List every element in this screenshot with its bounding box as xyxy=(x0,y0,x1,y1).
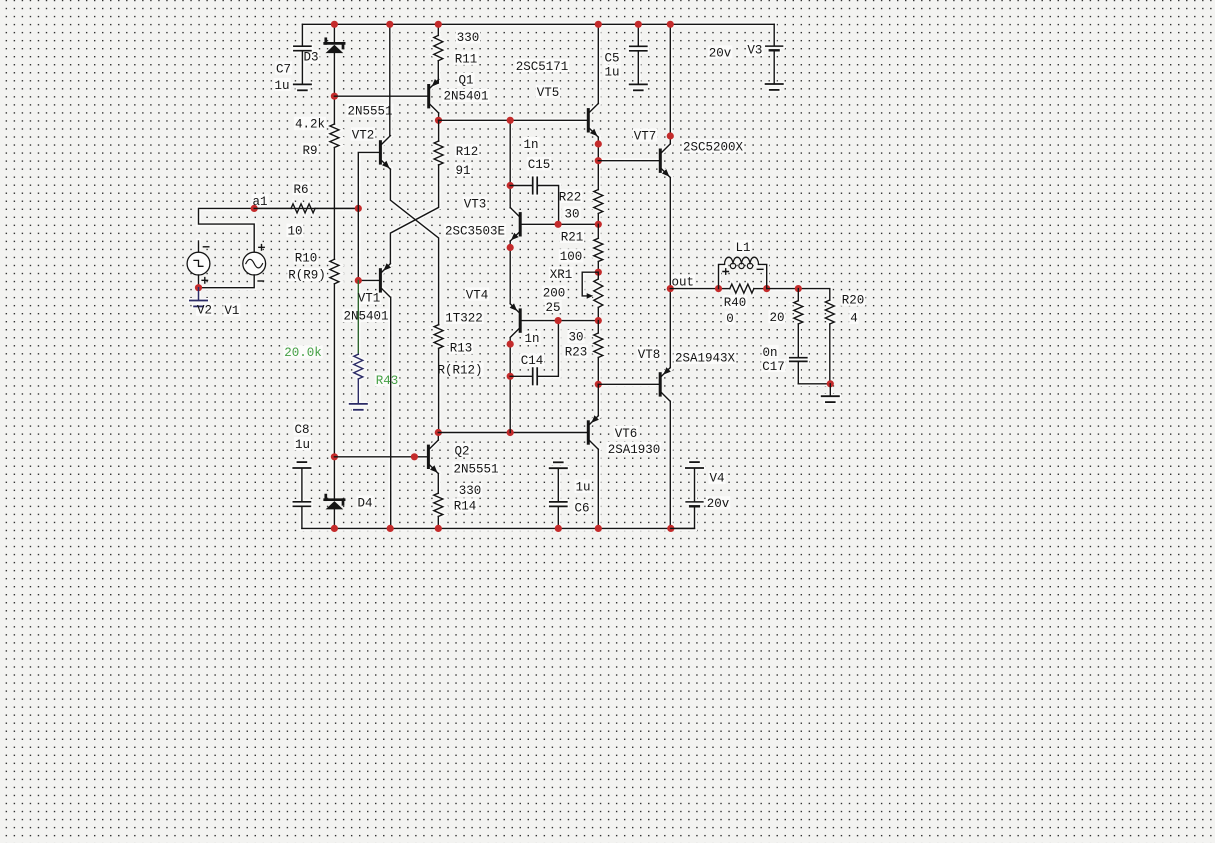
node VT2 collector rail tap xyxy=(386,21,393,28)
capacitor C15 1n xyxy=(533,177,538,193)
svg-text:V2: V2 xyxy=(197,304,212,318)
svg-text:1u: 1u xyxy=(295,438,310,452)
wire C15 right to VT3 base node xyxy=(538,186,559,225)
wire R23 node to VT6 emitter xyxy=(597,384,599,415)
svg-text:VT3: VT3 xyxy=(464,198,487,212)
ground above V4 xyxy=(686,462,703,468)
svg-text:4: 4 xyxy=(850,312,858,326)
wire bottom supply rail xyxy=(302,527,695,529)
svg-text:R(R9): R(R9) xyxy=(288,269,326,283)
transistor VT6 2SA1930 xyxy=(587,415,599,449)
svg-text:20.0k: 20.0k xyxy=(284,346,322,360)
V2 plus mark xyxy=(202,278,207,283)
wire VT1 collector to bottom rail xyxy=(390,297,392,528)
svg-text:out: out xyxy=(672,276,695,290)
svg-text:Q2: Q2 xyxy=(454,444,469,458)
wire V2 top stub xyxy=(198,241,200,252)
wire D3 node to Q1 base xyxy=(334,95,427,97)
svg-text:R20: R20 xyxy=(842,293,865,307)
V1 plus mark xyxy=(259,245,264,250)
voltage source V1 sine xyxy=(243,252,266,275)
transistor VT2 2N5551 xyxy=(379,136,391,170)
wire C6 to bottom rail xyxy=(557,507,559,529)
svg-text:R40: R40 xyxy=(724,296,747,310)
node a1 xyxy=(251,205,258,212)
svg-text:25: 25 xyxy=(545,301,560,315)
wire VT5 emitter node to VT7 base xyxy=(598,160,659,162)
L1 plus mark xyxy=(723,269,728,274)
node R22-R21-VT3 base xyxy=(595,221,602,228)
wire C7 to ground xyxy=(301,51,303,84)
svg-text:D3: D3 xyxy=(303,51,318,65)
svg-text:2N5551: 2N5551 xyxy=(347,105,392,119)
wire C14 right to VT4 base node xyxy=(538,321,559,377)
svg-text:330: 330 xyxy=(459,484,482,498)
wire top supply rail xyxy=(302,23,774,25)
node R40 right xyxy=(763,285,770,292)
battery V4 20v xyxy=(686,502,703,506)
wire XR1 wiper tap xyxy=(582,272,598,296)
node VT7 collector pin xyxy=(667,132,674,139)
svg-text:R22: R22 xyxy=(559,191,582,205)
svg-text:R23: R23 xyxy=(565,346,588,360)
node load ground junction xyxy=(827,380,834,387)
node input at R6 right xyxy=(355,205,362,212)
wire R40 to R20 corner xyxy=(767,289,830,300)
V1 minus mark xyxy=(258,280,263,282)
capacitor C7 xyxy=(294,46,311,51)
node Q1 collector junction xyxy=(435,117,442,124)
svg-text:100: 100 xyxy=(560,250,583,264)
wire R23 node to VT8 base xyxy=(598,383,658,385)
node C14 column on VT6 base wire xyxy=(507,429,514,436)
node VT5 collector rail tap xyxy=(595,21,602,28)
wire C8 to bottom rail xyxy=(301,507,303,529)
wire input node to VT1 base xyxy=(358,279,379,281)
node C14-VT4 base junction xyxy=(555,317,562,324)
svg-text:R6: R6 xyxy=(293,183,308,197)
svg-text:VT4: VT4 xyxy=(466,288,489,302)
capacitor C5 1u xyxy=(630,46,647,51)
wire C15 left lead xyxy=(510,185,532,187)
wire Q1 collector to node xyxy=(438,113,440,120)
node Q2 collector junction xyxy=(435,429,442,436)
wire V4 internal xyxy=(694,468,696,501)
ground below R43 xyxy=(350,404,367,410)
svg-text:C8: C8 xyxy=(294,423,309,437)
node VT3-VT4 emitter junction xyxy=(507,244,514,251)
wire L1 left lead xyxy=(719,264,725,288)
resistor R40 0 xyxy=(719,284,767,293)
wire VT4 collector down to C14 xyxy=(509,338,511,433)
resistor R9 4.2k xyxy=(330,124,339,259)
transistor Q2 2N5551 xyxy=(427,440,439,474)
svg-text:2N5401: 2N5401 xyxy=(343,310,388,324)
node VT8 collector on bottom rail xyxy=(667,525,674,532)
wire C7 to top rail xyxy=(301,24,303,46)
node out xyxy=(667,285,674,292)
resistor R43 xyxy=(354,354,363,403)
svg-text:1T322: 1T322 xyxy=(445,312,483,326)
node VT1 collector on bottom rail xyxy=(387,525,394,532)
wire top rail to VT5 collector xyxy=(597,24,599,103)
wire D4 to bottom rail xyxy=(333,509,335,528)
wire snubber bottom to ground node xyxy=(798,383,830,385)
node VT6 collector on bottom rail xyxy=(595,525,602,532)
svg-text:C7: C7 xyxy=(276,62,291,76)
wire C14 left lead xyxy=(510,375,532,377)
svg-text:30: 30 xyxy=(564,207,579,221)
capacitor C6 1u xyxy=(550,502,567,507)
node VT7 collector rail tap xyxy=(667,21,674,28)
wire Q2 collector to VT6 base xyxy=(438,432,587,434)
wire R12 bottom to VT1 emitter (crossing) xyxy=(390,165,438,264)
node D4 anode on bottom rail xyxy=(331,525,338,532)
node R14 on bottom rail xyxy=(435,525,442,532)
svg-text:R10: R10 xyxy=(295,251,318,265)
svg-text:VT2: VT2 xyxy=(352,128,375,142)
resistor R22 30 xyxy=(594,190,603,225)
svg-text:VT7: VT7 xyxy=(634,129,657,143)
node C15-VT3 base junction xyxy=(555,221,562,228)
node on Q2 base wire xyxy=(411,453,418,460)
node VT5 emitter xyxy=(595,140,602,147)
svg-text:2SA1930: 2SA1930 xyxy=(608,443,661,457)
svg-text:C14: C14 xyxy=(521,354,544,368)
svg-text:R21: R21 xyxy=(561,231,584,245)
transistor VT4 1T322 xyxy=(510,303,522,337)
svg-text:30: 30 xyxy=(568,331,583,345)
svg-text:1u: 1u xyxy=(274,79,289,93)
wire top rail to VT7 collector xyxy=(669,24,671,144)
svg-text:C17: C17 xyxy=(762,360,785,374)
V2 minus mark xyxy=(203,246,208,248)
svg-text:R43: R43 xyxy=(376,374,399,388)
svg-text:R12: R12 xyxy=(456,145,479,159)
wire VT1 base node to R43 xyxy=(357,281,359,355)
node C6 on bottom rail xyxy=(555,525,562,532)
svg-text:R13: R13 xyxy=(450,342,473,356)
svg-text:V3: V3 xyxy=(747,44,762,58)
wire top rail to D3 xyxy=(333,24,335,42)
wire C8 internal xyxy=(301,468,303,501)
XR1 wiper arrow xyxy=(587,293,594,299)
wire V3 to ground xyxy=(773,51,775,84)
svg-text:VT6: VT6 xyxy=(615,427,638,441)
svg-text:Q1: Q1 xyxy=(458,74,473,88)
diode D3 xyxy=(325,39,344,53)
resistor R6 10 xyxy=(254,204,358,213)
svg-text:R(R12): R(R12) xyxy=(437,363,482,377)
svg-text:R9: R9 xyxy=(302,144,317,158)
svg-text:L1: L1 xyxy=(735,241,750,255)
wire Q1 collector to VT5 base xyxy=(439,119,587,121)
wire V1 bottom to V2 bottom xyxy=(199,275,255,288)
wire D4 node to Q2 base xyxy=(334,456,427,458)
node R10-D4-Q2 base junction xyxy=(331,453,338,460)
svg-text:1n: 1n xyxy=(524,332,539,346)
wire VT8 collector to bottom rail xyxy=(669,401,671,528)
wire out to R40 xyxy=(670,288,718,290)
wire top rail to VT2 collector xyxy=(389,24,391,135)
wire top rail to C5 xyxy=(637,24,639,46)
capacitor C14 1n xyxy=(533,368,538,384)
resistor R11 330 xyxy=(434,24,443,83)
svg-text:2N5551: 2N5551 xyxy=(453,463,498,477)
transistor VT8 2SA1943X xyxy=(659,367,671,401)
voltage source V2 square-wave xyxy=(187,252,210,275)
node D3-R9-Q1 base junction xyxy=(331,93,338,100)
svg-text:C6: C6 xyxy=(574,501,589,515)
wire R10 to D4 xyxy=(333,457,335,498)
node XR1-R23-VT4 base xyxy=(595,317,602,324)
resistor R20 4 xyxy=(825,300,834,384)
transistor VT3 2SC3503E xyxy=(510,208,522,242)
svg-text:20v: 20v xyxy=(707,497,730,511)
resistor R23 30 xyxy=(594,321,603,385)
node R11 rail tap xyxy=(435,21,442,28)
node VT1 base junction xyxy=(355,277,362,284)
ground below V3 xyxy=(766,84,783,90)
svg-text:V1: V1 xyxy=(224,304,239,318)
wire a1 input loop xyxy=(199,208,359,252)
svg-text:2SC5171: 2SC5171 xyxy=(516,60,569,74)
transistor VT7 2SC5200X xyxy=(659,144,671,178)
svg-text:2N5401: 2N5401 xyxy=(443,90,488,104)
svg-text:2SC5200X: 2SC5200X xyxy=(683,140,744,154)
svg-text:0n: 0n xyxy=(762,346,777,360)
node VT7 base branch xyxy=(595,157,602,164)
svg-text:VT5: VT5 xyxy=(537,86,560,100)
transistor Q1 2N5401 xyxy=(427,79,439,113)
svg-text:V4: V4 xyxy=(709,472,724,486)
node VT4 collector junction xyxy=(507,341,514,348)
wire Q2 collector up xyxy=(437,433,439,441)
wire out to VT8 emitter xyxy=(669,289,671,368)
resistor R21 100 xyxy=(594,224,603,272)
wire L1 right lead xyxy=(759,264,767,288)
node snubber tap xyxy=(795,285,802,292)
svg-text:C5: C5 xyxy=(604,51,619,65)
ground below C5 xyxy=(630,84,647,90)
node C5 rail tap xyxy=(635,21,642,28)
resistor R14 330 xyxy=(434,474,443,529)
transistor VT5 2SC5171 xyxy=(587,104,599,138)
svg-text:2SC3503E: 2SC3503E xyxy=(445,224,505,238)
wire VT3 emitter to VT4 emitter xyxy=(509,241,511,304)
node V2-V1 return junction xyxy=(195,284,202,291)
svg-text:1u: 1u xyxy=(575,481,590,495)
wire VT6 collector to bottom rail xyxy=(597,449,599,528)
node VT5 base branch xyxy=(507,117,514,124)
wire VT7 emitter to out xyxy=(669,178,671,289)
wire input node to VT2 base xyxy=(358,152,379,280)
svg-text:10: 10 xyxy=(287,225,302,239)
svg-text:1n: 1n xyxy=(523,138,538,152)
resistor R12 91 xyxy=(434,141,443,165)
wire C5 to ground xyxy=(637,51,639,84)
wire ground stub xyxy=(829,384,831,396)
capacitor C17 0n xyxy=(790,358,807,362)
wire VT2 emitter to R13 top (crossing) xyxy=(390,169,438,325)
svg-text:VT8: VT8 xyxy=(638,348,661,362)
node R23-VT8 base-VT6 emitter xyxy=(595,381,602,388)
ground above C8 xyxy=(293,462,310,468)
wire V4 to bottom rail xyxy=(671,507,695,529)
svg-text:XR1: XR1 xyxy=(550,268,573,282)
svg-text:a1: a1 xyxy=(252,195,267,209)
capacitor C8 1u xyxy=(293,502,310,507)
wire VT4 base to XR1 node xyxy=(522,320,599,322)
wire VT3 base to R21 node xyxy=(522,223,599,225)
svg-text:1u: 1u xyxy=(604,65,619,79)
ground above C6 xyxy=(550,462,567,468)
svg-text:91: 91 xyxy=(455,164,470,178)
node D3 rail tap xyxy=(331,21,338,28)
potentiometer XR1 200 25% xyxy=(594,272,603,320)
wire top rail to V3 xyxy=(773,24,775,46)
wire C17 to ground wire xyxy=(797,362,799,384)
svg-text:20: 20 xyxy=(769,311,784,325)
resistor R13 R(R12) xyxy=(434,325,443,433)
svg-text:4.2k: 4.2k xyxy=(295,118,325,132)
svg-text:0: 0 xyxy=(726,312,734,326)
wire V2 bottom xyxy=(198,275,200,288)
node R40 left xyxy=(715,285,722,292)
node C14 left junction xyxy=(507,373,514,380)
svg-text:200: 200 xyxy=(543,287,566,301)
ground below load xyxy=(822,396,839,402)
svg-text:2SA1943X: 2SA1943X xyxy=(675,352,736,366)
L1 minus mark xyxy=(757,268,763,270)
wire D3 to R9 xyxy=(333,53,335,124)
ground below C7 xyxy=(294,84,311,90)
ground below V2 xyxy=(190,301,207,307)
wire VT5 base column xyxy=(509,120,511,208)
node R21-XR1 junction xyxy=(595,269,602,276)
wire R12 top lead xyxy=(438,120,440,141)
svg-text:330: 330 xyxy=(457,31,480,45)
resistor R10 R(R9) xyxy=(330,259,339,457)
diode D4 xyxy=(325,495,344,509)
inductor L1 coil xyxy=(725,257,759,264)
battery V3 20v xyxy=(766,46,783,50)
svg-text:VT1: VT1 xyxy=(358,292,381,306)
wire C6 internal xyxy=(557,468,559,501)
resistor 20 (snubber) xyxy=(794,289,803,358)
node C15 left junction xyxy=(507,182,514,189)
svg-text:R11: R11 xyxy=(455,52,478,66)
svg-text:C15: C15 xyxy=(528,158,551,172)
svg-text:20v: 20v xyxy=(709,46,732,60)
wire V2 node to ground xyxy=(198,288,200,301)
svg-text:R14: R14 xyxy=(454,499,477,513)
svg-text:D4: D4 xyxy=(357,496,372,510)
wire VT5 emitter down to R22 xyxy=(597,137,599,189)
transistor VT1 2N5401 xyxy=(379,263,391,297)
